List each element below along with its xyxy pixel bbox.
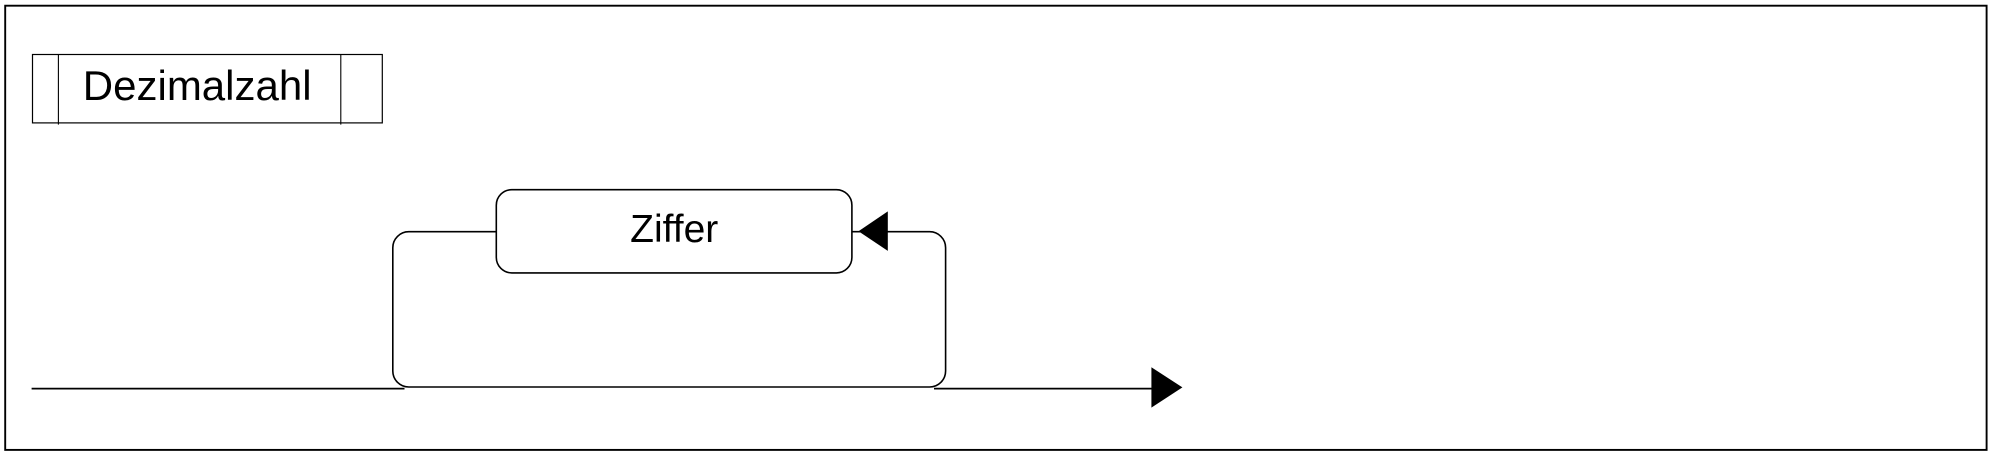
svg-text:Dezimalzahl: Dezimalzahl [83, 62, 312, 109]
loop arrowhead (points left into Ziffer box) [859, 211, 888, 251]
header right divider line [340, 55, 342, 125]
terminal box "Ziffer" [496, 190, 852, 273]
header left divider line [57, 55, 59, 125]
exit arrowhead (points right) [1151, 367, 1182, 407]
svg-text:Ziffer: Ziffer [630, 208, 718, 251]
rule name box (Dezimalzahl header) [33, 55, 383, 123]
main exit wire (right segment) [934, 388, 1153, 390]
main entry wire (left segment) [32, 388, 405, 390]
repeat loop wire (rounded rectangle) [393, 232, 946, 387]
